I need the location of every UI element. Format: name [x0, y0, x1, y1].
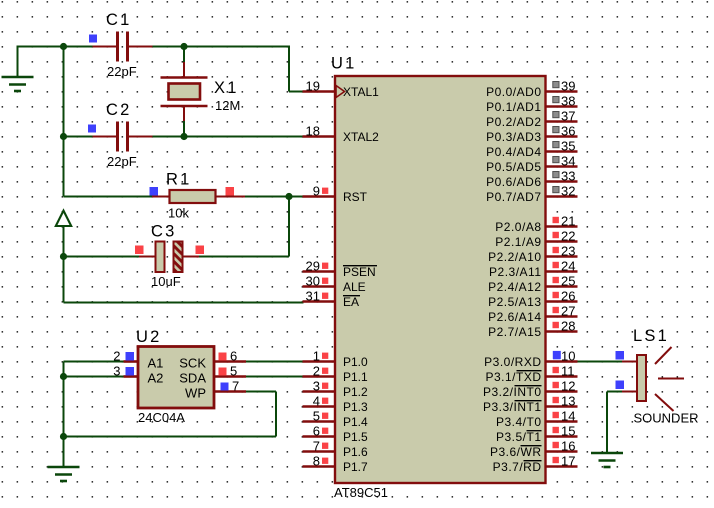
svg-text:C1: C1 [106, 11, 132, 29]
svg-text:3: 3 [113, 364, 120, 379]
wire: X1 bottom lead to C2 node [183, 121, 185, 137]
svg-text:27: 27 [561, 304, 575, 319]
svg-text:XTAL2: XTAL2 [343, 130, 379, 144]
wire: X1 top lead to C1 node [183, 47, 185, 63]
svg-text:X1: X1 [214, 79, 239, 97]
U1 pin 1 (P1.0) [303, 349, 369, 370]
wire: U2 SDA to U1 pin 2 P1.1 [246, 376, 304, 378]
svg-text:10uF: 10uF [151, 274, 181, 289]
svg-text:P3.1/TXD: P3.1/TXD [485, 370, 541, 384]
U1 pin 19 (XTAL1) [303, 79, 380, 100]
svg-text:P1.7: P1.7 [343, 460, 368, 474]
C3 value label 10uF [151, 274, 181, 289]
svg-text:5: 5 [313, 409, 320, 424]
U1 pin 5 (P1.4) [303, 409, 369, 430]
red indicator square at C3 right [196, 246, 205, 255]
wire: left GND rail x=63.5 from C1 row down to R1 row [64, 47, 153, 197]
svg-text:RST: RST [343, 190, 368, 204]
svg-text:P0.1/AD1: P0.1/AD1 [486, 100, 541, 114]
U1 value label AT89C51 [334, 485, 388, 500]
svg-text:P2.3/A11: P2.3/A11 [489, 265, 541, 279]
wire: U1 pin 10 P3.0/RXD to LS1 top pin [577, 361, 622, 363]
svg-text:P0.2/AD2: P0.2/AD2 [486, 115, 541, 129]
svg-text:U1: U1 [331, 55, 357, 73]
ground symbol GND1 (top left) [2, 47, 34, 92]
LS1 reference label [633, 327, 669, 345]
svg-text:25: 25 [561, 274, 575, 289]
svg-text:P3.4/T0: P3.4/T0 [496, 415, 542, 429]
C3 reference label [151, 223, 177, 241]
junction: RST node at (289,196.5) [285, 193, 292, 200]
svg-text:24: 24 [561, 259, 575, 274]
red indicator square at R1 right [226, 187, 235, 196]
svg-text:P3.2/INT0: P3.2/INT0 [483, 385, 542, 399]
svg-text:P3.0/RXD: P3.0/RXD [484, 355, 541, 369]
svg-text:36: 36 [561, 124, 575, 139]
U1 pin 11 (P3.1/TXD) [485, 364, 577, 385]
U1 pin 10 (P3.0/RXD) [484, 349, 577, 370]
U2 pin 5 (SDA) [179, 364, 246, 386]
svg-text:P3.5/T1: P3.5/T1 [496, 430, 542, 444]
svg-text:P0.7/AD7: P0.7/AD7 [486, 190, 541, 204]
svg-text:P3.3/INT1: P3.3/INT1 [483, 400, 542, 414]
C2 reference label [106, 101, 132, 119]
svg-text:15: 15 [561, 424, 575, 439]
svg-text:C2: C2 [106, 101, 132, 119]
U1 pin 4 (P1.3) [303, 394, 369, 415]
IC U1 body [335, 76, 546, 483]
svg-text:3: 3 [313, 379, 320, 394]
svg-text:SOUNDER: SOUNDER [634, 411, 699, 426]
svg-text:28: 28 [561, 319, 575, 334]
svg-text:PSEN: PSEN [343, 265, 376, 279]
U1 pin 39 (P0.0/AD0) [486, 79, 577, 100]
wire: C1 right lead to corner above XTAL1 [153, 46, 290, 48]
svg-text:2: 2 [113, 349, 120, 364]
U1 pin 16 (P3.6/WR) [490, 439, 578, 460]
U1 pin 13 (P3.3/INT1) [483, 394, 578, 415]
svg-text:P0.0/AD0: P0.0/AD0 [486, 85, 541, 99]
U1 pin 21 (P2.0/A8) [495, 214, 577, 235]
power symbol VCC (up arrow) [56, 211, 71, 257]
svg-text:7: 7 [232, 379, 239, 394]
svg-text:2: 2 [313, 364, 320, 379]
U1 pin 15 (P3.5/T1) [496, 424, 578, 445]
U2 value label 24C04A [138, 410, 185, 425]
svg-text:R1: R1 [166, 171, 192, 189]
ground symbol GND2 (bottom left) [48, 467, 80, 481]
U1 pin 3 (P1.2) [303, 379, 369, 400]
svg-text:A1: A1 [148, 356, 164, 371]
X1 reference label [214, 79, 239, 97]
svg-text:12: 12 [561, 379, 575, 394]
svg-text:14: 14 [561, 409, 575, 424]
svg-text:23: 23 [561, 244, 575, 259]
svg-text:P2.2/A10: P2.2/A10 [488, 250, 541, 264]
blue indicator square at LS1 bottom pin [616, 381, 625, 390]
svg-text:22: 22 [561, 229, 575, 244]
capacitor C2 [93, 122, 153, 152]
wire: U2 SCK to U1 pin 1 P1.0 [246, 361, 304, 363]
svg-text:SCK: SCK [179, 356, 206, 371]
LS1 value label SOUNDER [634, 411, 699, 426]
svg-text:AT89C51: AT89C51 [334, 485, 388, 500]
wire: U2 WP loop right, down and back to GND rail [64, 392, 277, 437]
svg-text:P1.6: P1.6 [343, 445, 368, 459]
svg-text:P2.1/A9: P2.1/A9 [495, 235, 541, 249]
svg-text:P2.7/A15: P2.7/A15 [488, 325, 541, 339]
svg-text:22pF: 22pF [107, 154, 137, 169]
junction: WP return / GND rail at (63.5,436.5) [60, 433, 67, 440]
U1 pin 22 (P2.1/A9) [495, 229, 577, 250]
ground symbol GND3 (under sounder) [591, 453, 623, 467]
junction: GND rail / C2 row at (63.5,136.5) [60, 133, 67, 140]
svg-text:19: 19 [306, 79, 320, 94]
svg-text:13: 13 [561, 394, 575, 409]
wire: LS1 bottom pin to GND3 [607, 392, 622, 453]
C2 value label 22pF [107, 154, 137, 169]
svg-text:P2.5/A13: P2.5/A13 [488, 295, 541, 309]
svg-text:P2.4/A12: P2.4/A12 [488, 280, 541, 294]
svg-text:39: 39 [561, 79, 575, 94]
U1 pin 18 (XTAL2) [303, 124, 380, 145]
junction: VCC node at (63.5,256.5) [60, 253, 67, 260]
C1 reference label [106, 11, 132, 29]
R1 reference label [166, 171, 192, 189]
svg-text:5: 5 [230, 364, 237, 379]
U2 pin 3 (A2) [113, 364, 163, 386]
svg-text:10: 10 [561, 349, 575, 364]
U2 pin 2 (A1) [113, 349, 163, 371]
capacitor C3 (electrolytic) [139, 242, 199, 273]
svg-text:P3.6/WR: P3.6/WR [490, 445, 542, 459]
svg-text:U2: U2 [136, 328, 162, 346]
svg-text:P0.3/AD3: P0.3/AD3 [486, 130, 541, 144]
svg-text:10k: 10k [168, 206, 189, 221]
resistor R1 [152, 190, 245, 203]
svg-text:P1.4: P1.4 [343, 415, 368, 429]
U2 reference label [136, 328, 162, 346]
svg-text:A2: A2 [148, 371, 164, 386]
wire: C2 right lead to U1 pin 18 XTAL2 [153, 136, 304, 138]
svg-text:P1.2: P1.2 [343, 385, 368, 399]
U1 pin 33 (P0.6/AD6) [486, 169, 577, 190]
svg-text:WP: WP [185, 386, 206, 401]
U1 pin 14 (P3.4/T0) [496, 409, 578, 430]
svg-text:24C04A: 24C04A [138, 410, 185, 425]
svg-text:21: 21 [561, 214, 575, 229]
svg-text:6: 6 [313, 424, 320, 439]
blue indicator square at C2 [88, 125, 96, 133]
svg-text:P0.6/AD6: P0.6/AD6 [486, 175, 541, 189]
svg-text:16: 16 [561, 439, 575, 454]
svg-text:34: 34 [561, 154, 575, 169]
blue indicator square at C1 [89, 35, 97, 43]
U1 pin 8 (P1.7) [303, 454, 369, 475]
svg-text:22pF: 22pF [107, 64, 137, 79]
svg-text:7: 7 [313, 439, 320, 454]
svg-text:1: 1 [313, 349, 320, 364]
svg-text:EA: EA [343, 295, 359, 309]
X1 value label 12M [215, 98, 240, 113]
U1 pin 27 (P2.6/A14) [488, 304, 577, 325]
svg-text:LS1: LS1 [633, 327, 669, 345]
svg-text:38: 38 [561, 94, 575, 109]
svg-text:29: 29 [306, 259, 320, 274]
wire: C2 left lead from GND rail [64, 136, 93, 138]
svg-text:P1.1: P1.1 [343, 370, 368, 384]
svg-text:32: 32 [561, 184, 575, 199]
U1 pin 26 (P2.5/A13) [488, 289, 577, 310]
svg-text:P2.0/A8: P2.0/A8 [495, 220, 541, 234]
wire: RST node down to C3 right lead [199, 197, 289, 257]
U1 pin 2 (P1.1) [303, 364, 369, 385]
svg-text:P1.5: P1.5 [343, 430, 368, 444]
U1 pin 28 (P2.7/A15) [488, 319, 577, 340]
svg-text:26: 26 [561, 289, 575, 304]
svg-text:P2.6/A14: P2.6/A14 [488, 310, 541, 324]
svg-text:8: 8 [313, 454, 320, 469]
U1 reference label [331, 55, 357, 73]
svg-text:P1.0: P1.0 [343, 355, 368, 369]
wire: GND rail from A2 node down to GND2 [63, 377, 65, 467]
U1 pin 25 (P2.4/A12) [488, 274, 577, 295]
blue indicator square at R1 left [150, 187, 159, 196]
wire: R1 right lead to U1 pin 9 RST [245, 196, 304, 198]
U1 pin 32 (P0.7/AD7) [486, 184, 577, 205]
svg-text:12M: 12M [215, 98, 240, 113]
svg-text:9: 9 [313, 184, 320, 199]
U1 pin 23 (P2.2/A10) [488, 244, 577, 265]
U1 pin 38 (P0.1/AD1) [486, 94, 577, 115]
svg-text:17: 17 [561, 454, 575, 469]
junction: C1/X1 node at (184,46.5) [180, 43, 187, 50]
U1 pin 30 (ALE) [303, 274, 366, 295]
R1 value label 10k [168, 206, 189, 221]
svg-text:31: 31 [306, 289, 320, 304]
U1 pin 6 (P1.5) [303, 424, 369, 445]
IC U2 body [138, 347, 214, 409]
crystal X1 [161, 62, 208, 121]
svg-text:35: 35 [561, 139, 575, 154]
svg-text:4: 4 [313, 394, 320, 409]
U1 pin 24 (P2.3/A11) [489, 259, 577, 280]
svg-text:P3.7/RD: P3.7/RD [493, 460, 542, 474]
wire: U2 pin A1 left then down to A2 node [64, 362, 124, 377]
blue indicator square at U1 pin 10 [553, 352, 561, 360]
svg-text:XTAL1: XTAL1 [343, 85, 379, 99]
U1 pin 36 (P0.3/AD3) [486, 124, 577, 145]
sounder LS1 [622, 347, 684, 411]
U1 pin 29 (PSEN) [303, 259, 378, 280]
wire: VCC rail down then right to U1 pin 31 EA [64, 257, 304, 303]
svg-text:11: 11 [561, 364, 575, 379]
wire: A2 node to U2 pin A2 [64, 376, 124, 378]
wire: GND1 to C1 left lead (net GND) [17, 46, 93, 48]
svg-text:33: 33 [561, 169, 575, 184]
svg-text:18: 18 [306, 124, 320, 139]
U1 pin 7 (P1.6) [303, 439, 369, 460]
svg-text:P0.5/AD5: P0.5/AD5 [486, 160, 541, 174]
junction: A2/GND node at (63.5,376.5) [60, 373, 67, 380]
U2 pin 7 (WP) [185, 379, 246, 401]
capacitor C1 [93, 32, 153, 62]
red indicator square at C3 left [135, 246, 144, 255]
wire: VCC node to C3 left lead [64, 256, 140, 258]
U1 pin 31 (EA) [303, 289, 361, 310]
svg-text:6: 6 [230, 349, 237, 364]
blue indicator square at LS1 top pin [616, 351, 625, 360]
U1 pin 37 (P0.2/AD2) [486, 109, 577, 130]
junction: GND rail / C1 row at (63.5,46.5) [60, 43, 67, 50]
U1 pin 35 (P0.4/AD4) [486, 139, 577, 160]
svg-text:ALE: ALE [343, 280, 366, 294]
U2 pin 6 (SCK) [179, 349, 246, 371]
U1 pin 34 (P0.5/AD5) [486, 154, 577, 175]
junction: C2/X1 node at (184,136.5) [180, 133, 187, 140]
svg-text:30: 30 [306, 274, 320, 289]
U1 pin 9 (RST) [303, 184, 368, 205]
C1 value label 22pF [107, 64, 137, 79]
wire: corner down into U1 pin 19 XTAL1 [289, 46, 304, 92]
U1 pin 17 (P3.7/RD) [493, 454, 578, 475]
svg-text:C3: C3 [151, 223, 177, 241]
svg-text:37: 37 [561, 109, 575, 124]
svg-text:SDA: SDA [179, 371, 206, 386]
U1 pin 12 (P3.2/INT0) [483, 379, 578, 400]
svg-text:P1.3: P1.3 [343, 400, 368, 414]
svg-text:P0.4/AD4: P0.4/AD4 [486, 145, 541, 159]
